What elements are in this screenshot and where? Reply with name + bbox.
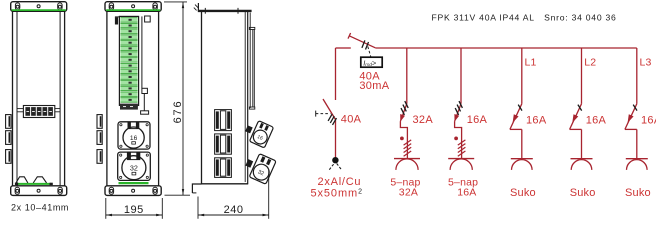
RCD pole marks <box>362 40 369 49</box>
incoming cable dashes <box>329 164 334 170</box>
svg-text:16A: 16A <box>526 114 547 126</box>
svg-text:Suko: Suko <box>625 187 651 199</box>
breaker F5 blade <box>625 104 637 130</box>
socket X2 bar <box>448 158 474 160</box>
view2 bottom flange keyhole left <box>109 187 113 194</box>
socket X1 arc <box>396 159 418 170</box>
wire breaker to socket <box>581 129 583 158</box>
wire bus down to main switch <box>335 48 337 100</box>
view2 bottom green strip <box>119 182 149 184</box>
view1 top flange keyhole left <box>15 3 19 10</box>
svg-text:676: 676 <box>172 100 184 124</box>
breaker F1 pole marks <box>401 101 408 115</box>
dimension 240 <box>198 170 269 219</box>
wire bus to breaker 16A <box>460 48 462 104</box>
view3 back wall <box>201 11 203 184</box>
socket X5 bar <box>626 158 648 160</box>
svg-text:16A: 16A <box>641 114 656 126</box>
breaker F4 arrowhead <box>572 114 578 123</box>
view3 socket mount lower <box>245 159 253 168</box>
node A : supply connection point <box>332 157 338 163</box>
bus wire right segment <box>375 47 637 49</box>
socket switch contact dot <box>400 137 404 141</box>
view2 left side tabs <box>97 115 102 164</box>
socket switch contact dot <box>454 137 458 141</box>
breaker F5 arrowhead <box>628 114 634 123</box>
socket X3 bar <box>511 158 533 160</box>
svg-text:2x 10–41mm: 2x 10–41mm <box>11 203 69 213</box>
view2 strip clamp top-left <box>115 17 118 24</box>
view2 bottom flange centre hole <box>132 189 135 192</box>
breaker F2 pole marks <box>455 101 462 115</box>
breaker F3 pole mark <box>518 105 522 111</box>
view3 top edge <box>198 10 252 12</box>
view2 right cover profile <box>141 16 143 88</box>
main switch Q1 blade <box>323 99 336 120</box>
svg-text:L2: L2 <box>584 57 596 69</box>
view3 angled socket 16A <box>249 121 273 148</box>
view2 top mounting flange <box>105 2 161 12</box>
wire L1 bus drop <box>521 48 523 104</box>
svg-text:5x50mm2: 5x50mm2 <box>311 187 363 199</box>
view3 cover stub <box>249 13 251 109</box>
svg-text:L1: L1 <box>525 57 537 69</box>
view3 DIN device 2 <box>215 134 232 154</box>
svg-text:16A: 16A <box>586 114 607 126</box>
view2 bottom mounting flange <box>105 186 161 196</box>
svg-text:240: 240 <box>224 204 244 216</box>
breaker F4 blade <box>570 104 582 130</box>
svg-text:16: 16 <box>130 135 138 142</box>
view2 top green strip <box>106 9 160 11</box>
wire jog breaker to socket switch <box>400 121 407 158</box>
view2 terminal strip cells <box>120 18 137 103</box>
view3 bottom edge <box>202 183 249 185</box>
main switch actuator dashed link <box>316 113 331 115</box>
view3 DIN device 3 <box>215 158 232 178</box>
RCD test linkage dashed <box>368 47 371 57</box>
view1 bottom green strip <box>16 183 51 185</box>
wire jog breaker to socket switch <box>455 121 462 158</box>
view1 bottom flange keyhole left <box>15 187 19 194</box>
svg-text:40A: 40A <box>341 114 362 126</box>
svg-text:32A: 32A <box>413 114 434 126</box>
RCD Q0 blade <box>349 36 375 48</box>
breaker F3 bottom bar <box>510 128 522 130</box>
breaker F1 arrowhead <box>400 114 405 122</box>
breaker F2 blade <box>455 104 461 122</box>
breaker F3 arrowhead <box>513 114 519 123</box>
svg-text:FPK 311V 40A IP44 AL Snro: 3: FPK 311V 40A IP44 AL Snro: 34 040 36 <box>432 12 617 22</box>
wire L3 bus drop <box>636 48 638 104</box>
svg-text:Suko: Suko <box>510 187 536 199</box>
view1 bottom flange keyhole right <box>58 187 62 194</box>
view2 strip bottom end cap <box>120 104 138 110</box>
svg-text:2xAl/Cu: 2xAl/Cu <box>318 176 362 188</box>
socket X4 bar <box>571 158 593 160</box>
view1 top mounting flange <box>11 2 67 12</box>
svg-text:32: 32 <box>130 163 138 172</box>
view1 top flange centre hole <box>37 5 40 8</box>
socket X3 arc <box>512 160 533 170</box>
view1 bottom cable humps <box>16 177 28 183</box>
wire L2 bus drop <box>581 48 583 104</box>
breaker F5 bottom bar <box>625 128 637 130</box>
socket pole marks x4 <box>404 140 412 156</box>
breaker F1 blade <box>400 104 406 122</box>
breaker F2 arrowhead <box>454 114 459 122</box>
view1 body side walls <box>12 11 14 185</box>
view1 top flange keyhole right <box>58 3 62 10</box>
view3 socket mount upper <box>245 125 253 133</box>
breaker F5 pole mark <box>633 105 637 111</box>
view3 DIN device 1 <box>215 110 232 131</box>
socket X2 arc <box>450 159 472 170</box>
view3 front wall <box>247 11 249 184</box>
wire main switch to node <box>335 120 337 158</box>
view2 top flange centre hole <box>132 5 135 8</box>
svg-text:16A: 16A <box>457 186 476 198</box>
socket X4 arc <box>571 160 592 170</box>
view2 CEE socket 16A <box>118 122 150 149</box>
svg-text:32A: 32A <box>399 186 418 198</box>
view2 top flange keyhole left <box>109 3 113 10</box>
view2 terminal strip frame <box>119 16 138 105</box>
svg-text:L3: L3 <box>640 57 652 69</box>
breaker F4 pole mark <box>578 105 582 111</box>
wire bus to breaker 32A <box>406 48 408 104</box>
view3 lid profile <box>252 30 254 108</box>
RCD test box Irsd <box>361 57 382 67</box>
view1 DIN rail lines <box>17 108 23 110</box>
dimension 195 <box>106 198 163 219</box>
view3 top screw ticks <box>204 8 206 14</box>
svg-text:30mA: 30mA <box>359 80 389 92</box>
socket X1 bar <box>394 158 420 160</box>
wire breaker to socket <box>636 129 638 158</box>
bus wire left segment <box>336 47 351 49</box>
svg-text:Suko: Suko <box>570 187 596 199</box>
wire breaker to socket <box>521 129 523 158</box>
main switch pole marks <box>328 114 336 125</box>
view1 left side tabs <box>6 115 12 164</box>
dimension 676 <box>164 2 190 195</box>
breaker F4 bottom bar <box>570 128 582 130</box>
view2 body side walls <box>106 11 108 185</box>
RCD blade tip tick <box>348 33 351 39</box>
svg-text:195: 195 <box>124 204 144 216</box>
view2 bottom flange keyhole right <box>153 187 157 194</box>
svg-text:16A: 16A <box>467 114 488 126</box>
view2 CEE socket 32A <box>118 152 151 180</box>
breaker F3 blade <box>510 104 522 130</box>
view3 bottom flange tab <box>192 184 201 193</box>
socket pole marks x4 <box>458 140 466 156</box>
view1 bottom mounting flange <box>11 186 67 196</box>
view1 top green strip <box>12 9 66 11</box>
view1 terminal block <box>23 106 54 118</box>
view1 bottom flange centre hole <box>37 189 40 192</box>
view3 angled socket 32A <box>249 154 276 185</box>
view3 wall flange top tab <box>197 3 199 11</box>
view2 top flange keyhole right <box>153 3 157 10</box>
socket X5 arc <box>627 160 648 170</box>
